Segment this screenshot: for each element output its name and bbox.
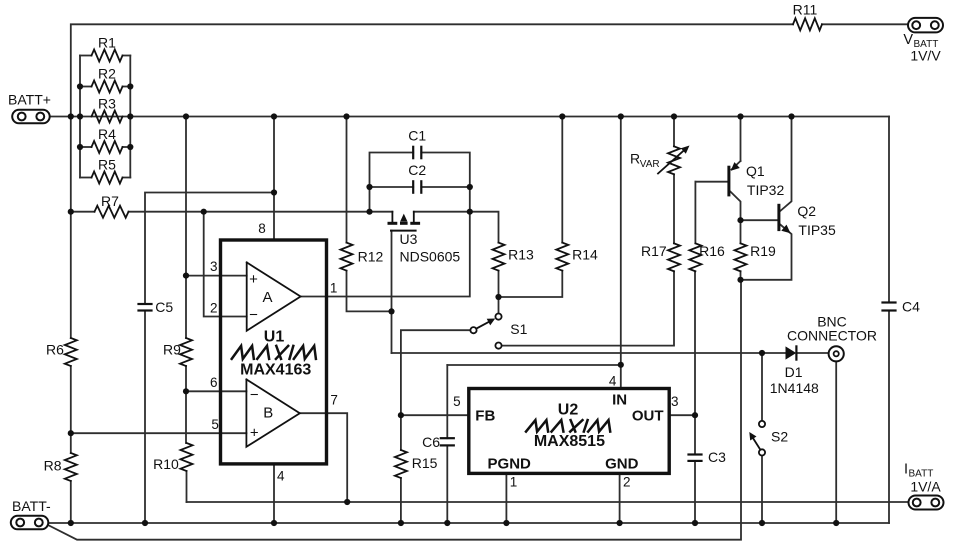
label BNC (817, 314, 847, 330)
wire U2 IN pin (620, 365, 622, 389)
wire C6 to IN node (447, 364, 621, 366)
junction dot U2 IN node (618, 362, 624, 368)
wire R12 column from BATT+ rail (347, 117, 392, 312)
svg-text:OUT: OUT (632, 408, 664, 425)
regulator U2 box (469, 389, 669, 474)
switch S2 (749, 421, 765, 456)
wire left column BATT+ to R6 to R8 to ground (70, 117, 72, 524)
label TIP35 (798, 222, 836, 238)
capacitor C5 (137, 299, 173, 315)
wire from R11 to VBATT terminal (822, 23, 908, 25)
wire D1 cathode to BNC (797, 352, 828, 354)
label 1N4148 (770, 380, 819, 396)
junction dot FB node (398, 412, 404, 418)
wire S1 lower throw to R17 bottom (502, 271, 675, 345)
junction dots on R1-R5 parallel rails (77, 83, 134, 150)
wire C6 column (446, 365, 448, 523)
svg-text:R: R (630, 151, 640, 167)
svg-text:GND: GND (605, 456, 639, 473)
svg-text:C3: C3 (708, 449, 726, 465)
junction dot C5/pin8 (271, 189, 277, 195)
resistor R7 (95, 193, 129, 218)
svg-text:R12: R12 (358, 248, 384, 264)
pin number 1 U2 (510, 475, 518, 490)
svg-text:1: 1 (330, 281, 338, 296)
svg-text:+: + (250, 425, 259, 442)
svg-text:VAR: VAR (640, 159, 660, 170)
wire BNC shell to ground rail (835, 362, 837, 523)
svg-text:B: B (263, 405, 273, 422)
wire U3 drain to R13 top (414, 212, 499, 243)
resistor R16 (689, 243, 725, 271)
wire U2 IN supply column from BATT+ rail (620, 117, 622, 365)
terminal IBATT (909, 496, 944, 510)
label Q1 (746, 163, 765, 179)
op-amp U1 channel A triangle (247, 262, 301, 330)
resistor R4 (92, 126, 123, 153)
wire D1 line from U3 gate to diode (392, 352, 787, 354)
svg-text:U1: U1 (264, 329, 285, 346)
label NDS0605 (400, 248, 461, 264)
svg-text:Q1: Q1 (746, 163, 765, 179)
resistor R6 (46, 338, 77, 366)
label MAX8515 (534, 433, 605, 450)
wire U2 GND pin to ground (619, 473, 621, 523)
resistor R14 (556, 243, 598, 271)
pin number 2 U2 (623, 475, 631, 490)
pin number 8 U1 (258, 221, 266, 236)
junction dots on BATT+ rail (68, 113, 795, 119)
svg-text:C5: C5 (155, 299, 173, 315)
label U1 (264, 329, 285, 346)
wire R1-R5 parallel block left rail (79, 56, 81, 178)
resistor R15 (395, 450, 438, 478)
svg-text:R9: R9 (163, 342, 181, 358)
wire U1 pin2 from R7 node (204, 212, 247, 317)
junction dot R13 bottom/S1 (495, 294, 501, 300)
transistor Q1 (729, 162, 740, 195)
svg-text:S2: S2 (771, 429, 788, 445)
junction dot pin5/R6/R8 (68, 430, 74, 436)
svg-text:−: − (250, 386, 259, 403)
svg-text:R5: R5 (98, 157, 116, 173)
wire R13/R14 bottom link (499, 271, 563, 297)
wire BATT- kelvin return line to Q2 emitter/R19 node (49, 281, 741, 540)
svg-text:MAX8515: MAX8515 (534, 433, 605, 450)
svg-text:NDS0605: NDS0605 (400, 248, 461, 264)
pin number 5 U1 (211, 417, 219, 432)
wire R1 row stubs (80, 55, 130, 57)
svg-text:PGND: PGND (488, 456, 532, 473)
pin name PGND (488, 456, 532, 473)
wire R14 column from BATT+ rail (561, 117, 563, 243)
svg-text:1: 1 (510, 475, 518, 490)
junction dot Q1 collector/Q2 base/R19 (737, 217, 743, 223)
wire R16 column from Q1 base to OUT node and C3 to ground (694, 182, 696, 523)
svg-text:6: 6 (210, 375, 218, 390)
junction dot R19 bottom/Q2 emitter (737, 277, 743, 283)
svg-text:R4: R4 (98, 126, 116, 142)
resistor R10 (153, 443, 192, 472)
label 1V/V (910, 48, 941, 64)
wire Q1 collector down to Q2 base node (730, 192, 740, 221)
svg-text:+: + (249, 271, 258, 288)
terminal BATT- (11, 516, 49, 530)
svg-text:R7: R7 (101, 193, 119, 209)
label 1V/A (910, 479, 941, 495)
MAXIM logo U1 (232, 346, 316, 359)
wire RVAR/R17 column from BATT+ rail (673, 117, 675, 244)
svg-text:C4: C4 (902, 299, 920, 315)
svg-text:R15: R15 (412, 455, 438, 471)
svg-text:MAX4163: MAX4163 (240, 362, 311, 379)
wire BATT+ main rail (51, 116, 890, 118)
pin number 2 U1 (210, 301, 218, 316)
pin number 3 U1 (210, 259, 218, 274)
wire R7 line from left column to U3 source (71, 211, 393, 213)
wire ground rail (BATT-) (48, 522, 889, 524)
wire R19 from Q2 base node (740, 220, 742, 280)
wire R15 column from FB node to ground (400, 415, 402, 523)
wire S2 bottom to ground rail (761, 455, 763, 523)
variable resistor RVAR (658, 146, 690, 175)
resistor R5 (92, 157, 123, 184)
label IBATT (904, 462, 933, 480)
svg-text:4: 4 (609, 374, 617, 389)
wire Q2 collector to BATT+ rail (780, 117, 791, 212)
capacitor C2 (408, 162, 426, 194)
wire C5 top connection to pin8 column (145, 193, 274, 305)
resistor R12 (341, 243, 384, 271)
label MAX4163 (240, 362, 311, 379)
wire U2 OUT pin to R16/C3 node (669, 414, 695, 416)
svg-text:S1: S1 (510, 321, 527, 337)
svg-text:2: 2 (210, 301, 218, 316)
svg-text:V: V (903, 32, 913, 48)
wire U2 PGND pin to ground (505, 473, 507, 523)
wire top VBATT rail from BATT+ column to R11 (71, 24, 793, 116)
wire U1 pin5 input from R6/R8 node (71, 432, 247, 434)
wire C5 bottom to ground rail (144, 311, 146, 524)
svg-text:7: 7 (330, 393, 338, 408)
capacitor C3 (687, 449, 726, 465)
pin number 7 U1 (330, 393, 338, 408)
svg-text:FB: FB (475, 408, 495, 425)
junction dot pin6/R9/R10 (183, 388, 189, 394)
svg-text:R13: R13 (508, 246, 534, 262)
diode D1 (786, 346, 797, 359)
svg-text:3: 3 (210, 259, 218, 274)
svg-text:Q2: Q2 (797, 203, 816, 219)
svg-text:CONNECTOR: CONNECTOR (787, 328, 877, 344)
wire U1 pin3 input (186, 275, 247, 277)
label U3 (400, 231, 418, 247)
svg-text:1V/A: 1V/A (910, 479, 941, 495)
BNC connector (829, 346, 844, 361)
resistor R11 (793, 2, 822, 31)
svg-text:R6: R6 (46, 342, 64, 358)
svg-text:1V/V: 1V/V (910, 48, 941, 64)
label U2 (558, 402, 579, 419)
resistor R2 (92, 66, 123, 93)
wire current sense line from R10 to IBATT terminal (187, 501, 908, 503)
pin number 4 U2 (609, 374, 617, 389)
label D1 (785, 364, 803, 380)
wire R13 bottom to junction (498, 271, 500, 297)
svg-text:C6: C6 (422, 434, 440, 450)
svg-text:R3: R3 (98, 96, 116, 112)
svg-text:8: 8 (258, 221, 266, 236)
pin number 6 U1 (210, 375, 218, 390)
label RVAR (630, 151, 660, 171)
svg-text:R8: R8 (44, 458, 62, 474)
capacitor C4 (881, 299, 920, 315)
pin name FB (475, 408, 495, 425)
resistor R3 (92, 96, 123, 123)
terminal BATT+ (12, 110, 50, 124)
wire Q1 base lead (695, 181, 727, 183)
wire U1 pin6 input (186, 390, 246, 392)
capacitor C1 (408, 128, 426, 160)
svg-text:U3: U3 (400, 231, 418, 247)
resistor R1 (92, 35, 123, 62)
pin number 4 U1 (277, 469, 285, 484)
svg-text:BATT-: BATT- (12, 498, 51, 514)
svg-text:C1: C1 (408, 128, 426, 144)
junction dot pin3/R9 (183, 273, 189, 279)
pin number 3 U2 (671, 394, 679, 409)
op-amp U1 box (221, 240, 327, 464)
resistor R8 (44, 453, 77, 481)
wire U1 pin8 supply column (273, 117, 275, 241)
wire S2 column from D1 node (761, 353, 763, 421)
svg-text:R14: R14 (572, 246, 598, 262)
label Q2 (797, 203, 816, 219)
pin name GND (605, 456, 639, 473)
label CONNECTOR (787, 328, 877, 344)
svg-text:R16: R16 (699, 243, 725, 259)
terminal VBATT (908, 18, 943, 33)
wire S1 pole to FB node (401, 330, 471, 415)
wire R5 row stubs (80, 177, 130, 179)
svg-text:D1: D1 (785, 364, 803, 380)
label S1 (510, 321, 527, 337)
wire R1-R5 parallel block right rail (129, 56, 131, 178)
resistor R13 (493, 243, 535, 271)
wire U3 gate column down to D1 line (391, 231, 393, 353)
wire R2 row stubs (80, 86, 130, 88)
label TIP32 (747, 182, 785, 198)
wire C4 right-edge column from BATT+ rail down to ground rail end (888, 117, 890, 524)
junction dot U3 drain/R13 (467, 209, 473, 215)
wire U1 pin1 output to U3 drain rail (301, 212, 470, 297)
label S2 (771, 429, 788, 445)
svg-text:R2: R2 (98, 66, 116, 82)
wire U1 pin7 output down to current-sense line (300, 413, 347, 502)
svg-text:R11: R11 (793, 2, 818, 18)
resistor R9 (163, 338, 192, 366)
svg-text:R10: R10 (153, 456, 179, 472)
wire R9 column from BATT+ rail down to R10 and sense line (185, 117, 188, 503)
wire R4 row stubs (80, 146, 130, 148)
svg-text:U2: U2 (558, 402, 579, 419)
junction dots on ground rail (68, 520, 840, 526)
svg-text:5: 5 (453, 394, 461, 409)
svg-text:BATT+: BATT+ (8, 92, 51, 108)
label BATT- (12, 498, 51, 514)
capacitor C6 (422, 434, 455, 450)
pin number 1 U1 (330, 281, 338, 296)
resistor R19 (735, 243, 777, 271)
switch S1 (470, 314, 501, 349)
op-amp U1 channel B triangle (246, 379, 299, 446)
svg-text:IN: IN (612, 392, 627, 409)
svg-text:C2: C2 (408, 162, 426, 178)
pin name OUT (632, 408, 664, 425)
mosfet U3 (388, 212, 421, 231)
label VBATT (903, 32, 938, 50)
wire C1 top loop (370, 153, 470, 212)
pin number 5 U2 (453, 394, 461, 409)
svg-text:−: − (249, 307, 258, 324)
wire C2 row (370, 186, 470, 188)
wire Q2 base lead (741, 219, 778, 221)
wire Q1 emitter from BATT+ rail (732, 117, 741, 170)
svg-text:R19: R19 (750, 243, 776, 259)
junction dot OUT/R16/C3 node (692, 412, 698, 418)
MAXIM logo U2 (526, 420, 610, 432)
svg-text:1N4148: 1N4148 (770, 380, 819, 396)
svg-text:3: 3 (671, 394, 679, 409)
junction dots C2 row (366, 184, 473, 190)
junction dots on R7 line (68, 209, 373, 215)
wire Q2 emitter to R19 bottom node (741, 225, 792, 280)
junction dot R12/U3 gate (388, 308, 394, 314)
transistor Q2 (779, 205, 791, 233)
svg-text:A: A (262, 289, 272, 306)
svg-text:5: 5 (211, 417, 219, 432)
pin name IN (612, 392, 627, 409)
svg-text:TIP35: TIP35 (798, 222, 836, 238)
resistor R17 (641, 243, 680, 271)
wire S1 upper throw stub (498, 297, 500, 314)
junction dot D1/S2 node (759, 350, 765, 356)
junction dot pin7 on sense line (344, 499, 350, 505)
svg-text:TIP32: TIP32 (747, 182, 785, 198)
svg-text:I: I (904, 462, 908, 478)
svg-text:R17: R17 (641, 243, 667, 259)
wire U2 FB pin (401, 414, 469, 416)
svg-text:2: 2 (623, 475, 631, 490)
svg-text:R1: R1 (98, 35, 116, 51)
wire U1 pin4 to ground rail (273, 464, 275, 523)
svg-text:4: 4 (277, 469, 285, 484)
label BATT+ (8, 92, 51, 108)
